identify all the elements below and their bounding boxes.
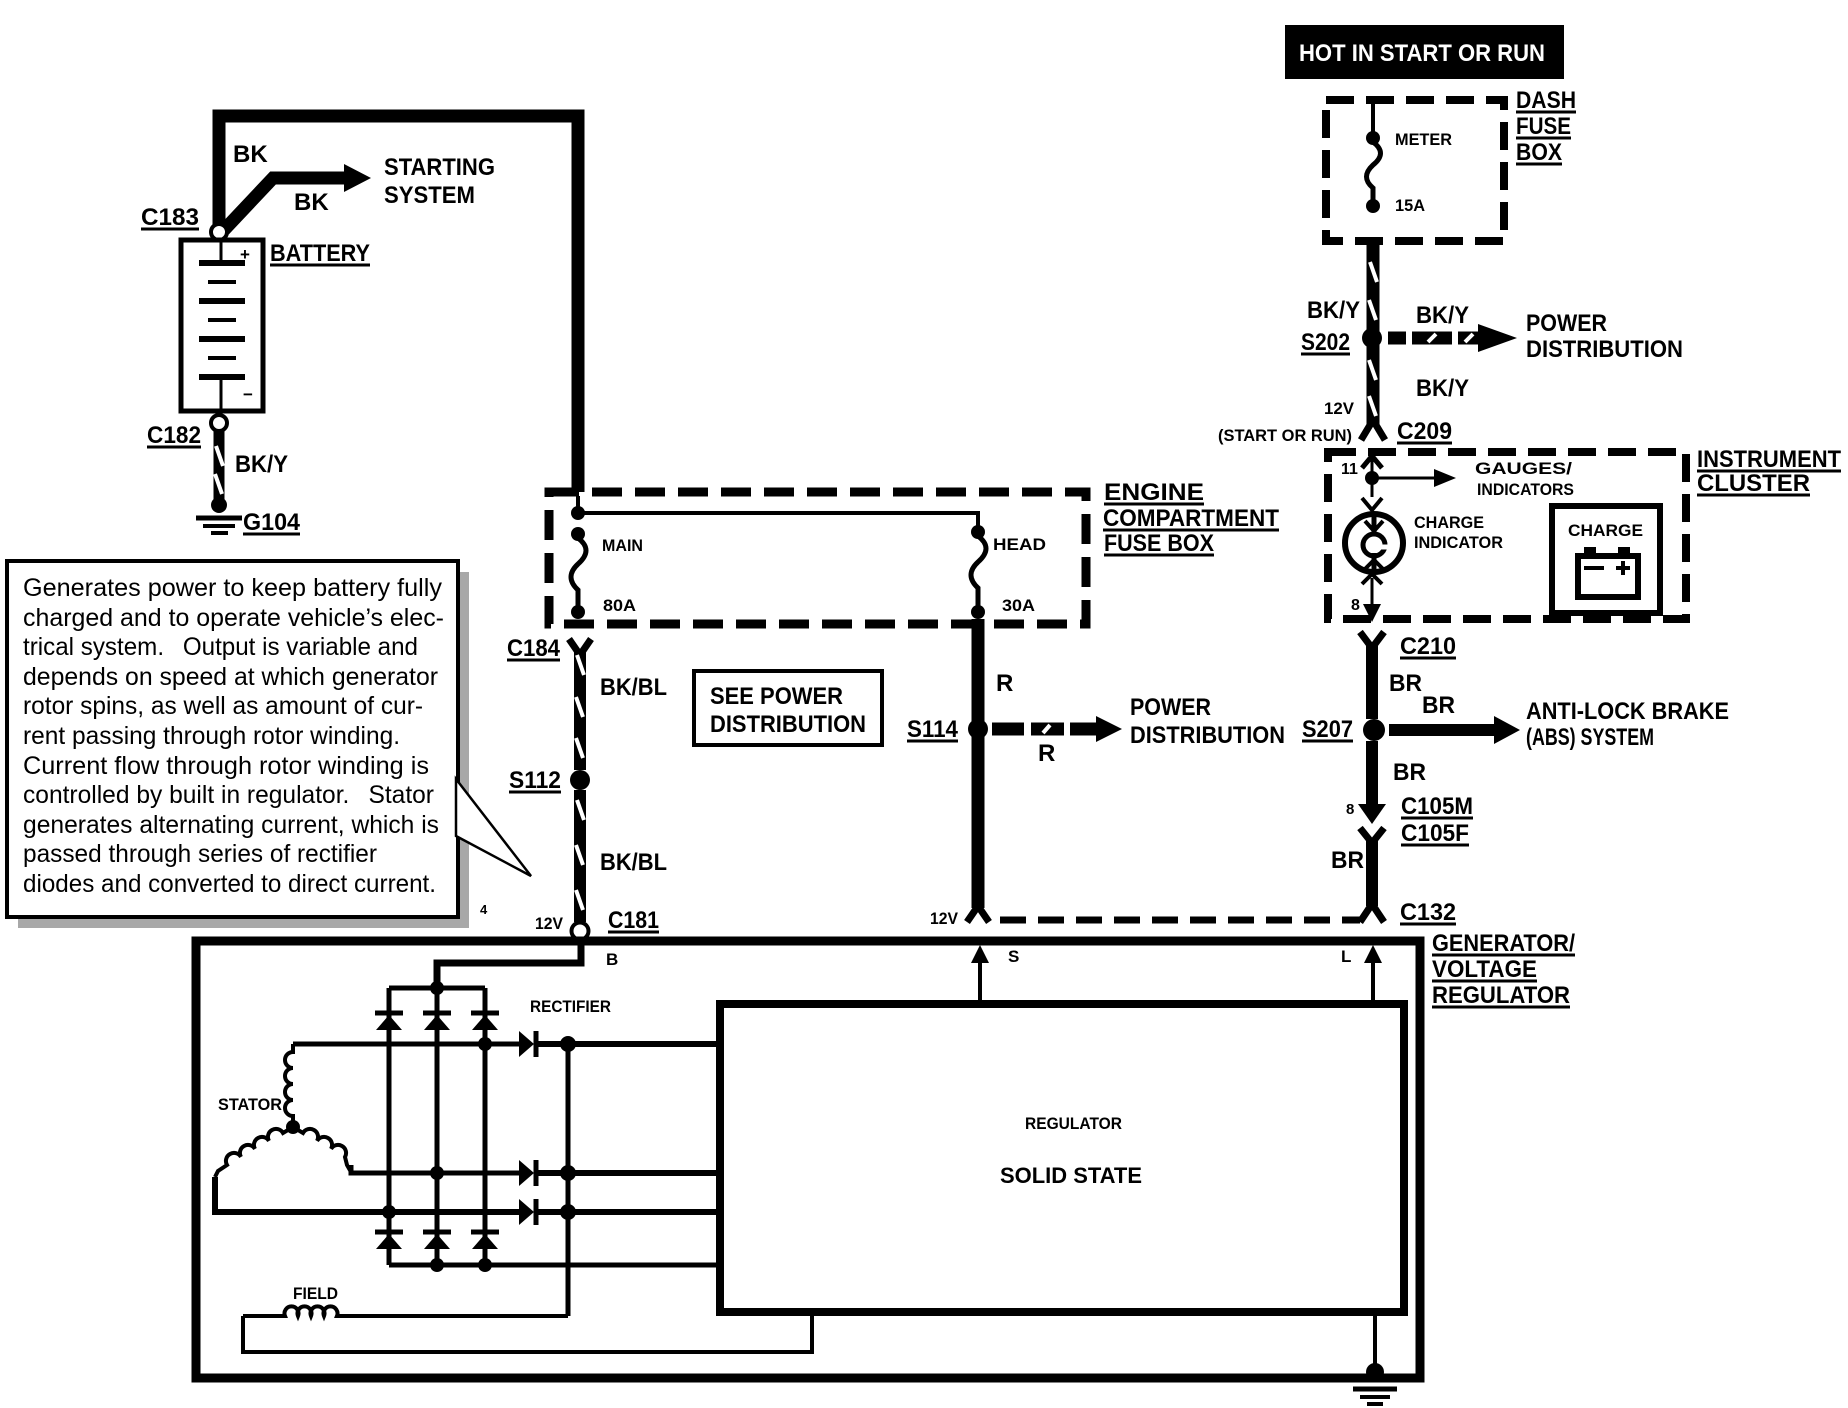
svg-text:C182: C182 (147, 422, 201, 449)
svg-text:G104: G104 (243, 509, 301, 536)
svg-text:4: 4 (480, 902, 488, 917)
svg-text:RECTIFIER: RECTIFIER (530, 997, 611, 1016)
svg-text:COMPARTMENT: COMPARTMENT (1103, 505, 1279, 532)
generator/voltage regulator box (196, 941, 1420, 1378)
wire C184 to S112 (BK/BL) (574, 650, 586, 770)
connector C105F (1360, 828, 1384, 843)
svg-text:SYSTEM: SYSTEM (384, 182, 475, 209)
svg-text:rotor spins, as well as amount: rotor spins, as well as amount of cur- (23, 692, 423, 720)
pin S arrow (978, 952, 982, 1004)
svg-text:diodes and converted to direct: diodes and converted to direct current. (23, 870, 436, 898)
svg-text:GENERATOR/: GENERATOR/ (1432, 930, 1575, 957)
stator phase A line (293, 1042, 520, 1047)
dashed arrow S202 to power distribution (1388, 332, 1480, 345)
svg-text:S114: S114 (907, 716, 959, 743)
svg-text:80A: 80A (603, 596, 636, 615)
svg-text:Generates power to keep batter: Generates power to keep battery fully (23, 574, 442, 602)
connector chevron above charge indicator (1362, 498, 1382, 510)
connector C182 (211, 415, 227, 431)
svg-text:L: L (1341, 947, 1351, 966)
svg-text:C181: C181 (608, 907, 659, 934)
dash fuse box (1326, 100, 1504, 241)
svg-text:8: 8 (1351, 597, 1360, 614)
battery (181, 240, 263, 411)
svg-text:depends on speed at which gene: depends on speed at which generator (23, 663, 438, 691)
svg-text:CHARGE: CHARGE (1568, 521, 1643, 540)
svg-text:rent passing through rotor win: rent passing through rotor winding. (23, 722, 400, 750)
battery icon (1578, 556, 1638, 597)
svg-text:VOLTAGE: VOLTAGE (1432, 956, 1537, 983)
connector C132 (1360, 904, 1384, 922)
header HOT IN START OR RUN (1285, 25, 1564, 79)
svg-text:12V: 12V (535, 914, 564, 933)
svg-text:FUSE BOX: FUSE BOX (1104, 530, 1214, 557)
svg-text:METER: METER (1395, 130, 1452, 149)
wire HEAD fuse to generator S pin (R) (972, 619, 985, 908)
svg-text:S: S (1008, 947, 1019, 966)
rectifier positive diodes (top) (375, 1011, 403, 1016)
note box (7, 561, 458, 917)
svg-text:SEE POWER: SEE POWER (710, 683, 843, 710)
splice S202 (1362, 328, 1382, 348)
svg-text:POWER: POWER (1526, 310, 1607, 337)
connector C183 (211, 224, 227, 240)
field winding (243, 1306, 568, 1316)
wire: battery C183 up and over to engine compartment fuse box (BK) (219, 116, 578, 492)
stator windings (285, 1044, 293, 1127)
svg-text:Current flow through rotor win: Current flow through rotor winding is (23, 752, 429, 780)
svg-text:(ABS) SYSTEM: (ABS) SYSTEM (1526, 724, 1654, 751)
dashed wire from 12V fork to C132 fork (1000, 917, 1360, 924)
svg-text:C184: C184 (507, 635, 561, 662)
charge telltale icon box (1552, 506, 1660, 613)
svg-text:DASH: DASH (1516, 87, 1576, 114)
svg-text:BR: BR (1393, 759, 1426, 786)
svg-text:SOLID STATE: SOLID STATE (1000, 1163, 1142, 1188)
svg-text:CLUSTER: CLUSTER (1697, 470, 1810, 497)
svg-text:STARTING: STARTING (384, 154, 495, 181)
svg-text:C105M: C105M (1401, 793, 1473, 820)
svg-text:passed through series of recti: passed through series of rectifier (23, 840, 377, 868)
svg-text:12V: 12V (930, 909, 959, 928)
trio output junction (536, 1041, 719, 1047)
svg-text:BR: BR (1331, 847, 1364, 874)
fuse METER 15A (1371, 102, 1375, 138)
svg-text:POWER: POWER (1130, 694, 1211, 721)
arrow S207 to ABS (1389, 724, 1496, 736)
ground G104 (211, 497, 227, 513)
svg-text:BK/BL: BK/BL (600, 849, 667, 876)
svg-text:HOT IN START OR RUN: HOT IN START OR RUN (1299, 40, 1545, 67)
connector fork at 12V (S pin feed) (967, 906, 989, 922)
svg-text:C183: C183 (141, 204, 199, 231)
svg-text:controlled by built in regulat: controlled by built in regulator. Stator (23, 781, 434, 809)
svg-text:INSTRUMENT: INSTRUMENT (1697, 446, 1841, 473)
dashed arrow S114 to power distribution (992, 723, 1098, 736)
regulator box (720, 1004, 1404, 1312)
svg-text:B: B (606, 950, 618, 969)
svg-text:INDICATORS: INDICATORS (1477, 480, 1574, 499)
svg-text:11: 11 (1341, 461, 1358, 478)
rectifier bottom rail (389, 1263, 719, 1268)
svg-text:BK/Y: BK/Y (1307, 297, 1360, 324)
splice S112 (570, 770, 590, 790)
svg-text:S202: S202 (1301, 329, 1350, 356)
svg-text:MAIN: MAIN (602, 536, 643, 555)
splice S207 (1363, 719, 1385, 741)
svg-text:C209: C209 (1397, 418, 1452, 445)
svg-text:−: − (243, 385, 253, 404)
svg-text:S112: S112 (509, 767, 561, 794)
svg-text:15A: 15A (1395, 196, 1425, 215)
svg-text:R: R (1038, 740, 1055, 767)
svg-text:BK/Y: BK/Y (1416, 302, 1469, 329)
arrow to gauges/indicators (1372, 477, 1436, 480)
wire dash fuse box to C209 (BK/Y) (1367, 243, 1380, 424)
note box shadow (458, 572, 469, 924)
svg-text:ANTI-LOCK BRAKE: ANTI-LOCK BRAKE (1526, 698, 1729, 725)
svg-text:generates alternating current,: generates alternating current, which is (23, 811, 439, 839)
svg-text:REGULATOR: REGULATOR (1432, 982, 1570, 1009)
svg-text:C132: C132 (1400, 899, 1456, 926)
svg-text:DISTRIBUTION: DISTRIBUTION (710, 711, 866, 738)
wire S112 to C181 (BK/BL) (574, 790, 586, 922)
svg-text:+: + (240, 245, 250, 264)
connector C209 (1361, 420, 1385, 440)
svg-text:8: 8 (1346, 801, 1354, 818)
connector C210 (1360, 632, 1384, 648)
pin L arrow (1371, 952, 1375, 1004)
rectifier columns (387, 988, 392, 1265)
svg-text:REGULATOR: REGULATOR (1025, 1114, 1122, 1133)
svg-text:30A: 30A (1002, 596, 1035, 615)
svg-text:INDICATOR: INDICATOR (1414, 533, 1503, 552)
svg-text:CHARGE: CHARGE (1414, 513, 1484, 532)
fuse HEAD 30A (971, 525, 985, 539)
diode trio (519, 1031, 534, 1057)
svg-text:BATTERY: BATTERY (270, 240, 370, 267)
note callout pointer (456, 779, 531, 876)
wire C210 to S207 (BR) (1366, 644, 1378, 719)
svg-text:BK: BK (233, 141, 268, 168)
svg-text:12V: 12V (1324, 399, 1355, 418)
rectifier negative diodes (bottom) (375, 1230, 403, 1235)
engine compartment fuse box (549, 492, 1086, 624)
connector chevron below charge indicator (1362, 574, 1382, 584)
svg-text:BK: BK (294, 189, 329, 216)
svg-text:BK/Y: BK/Y (1416, 375, 1469, 402)
svg-text:STATOR: STATOR (218, 1095, 282, 1114)
svg-text:BOX: BOX (1516, 139, 1562, 166)
svg-text:BR: BR (1422, 692, 1455, 719)
stator phase B line (351, 1165, 520, 1173)
see power distribution box (694, 671, 882, 745)
fuse MAIN 80A (571, 527, 585, 541)
arrowhead to starting system (344, 164, 371, 192)
svg-text:BK/BL: BK/BL (600, 674, 667, 701)
svg-text:R: R (996, 670, 1013, 697)
svg-text:DISTRIBUTION: DISTRIBUTION (1526, 336, 1683, 363)
svg-text:GAUGES/: GAUGES/ (1475, 459, 1572, 478)
svg-text:ENGINE: ENGINE (1104, 479, 1204, 506)
node: gauges branch (1365, 471, 1379, 485)
svg-text:BR: BR (1389, 670, 1422, 697)
splice S114 (968, 719, 988, 739)
wire: starting system branch (BK) (224, 178, 346, 230)
svg-text:DISTRIBUTION: DISTRIBUTION (1130, 722, 1285, 749)
ground wire from regulator (1373, 1312, 1377, 1374)
svg-text:FIELD: FIELD (293, 1284, 338, 1303)
wire C182 to G104 (BK/Y) (214, 431, 225, 502)
svg-text:S207: S207 (1302, 716, 1353, 743)
svg-text:C105F: C105F (1401, 820, 1469, 847)
svg-text:HEAD: HEAD (993, 535, 1046, 554)
wire C105F to C132 (BR) (1366, 838, 1378, 906)
connector C184 (569, 639, 591, 655)
svg-text:FUSE: FUSE (1516, 113, 1571, 140)
svg-text:BK/Y: BK/Y (235, 451, 288, 478)
svg-text:C210: C210 (1400, 633, 1456, 660)
svg-text:trical system. Output is vari: trical system. Output is variable and (23, 633, 418, 661)
charge indicator lamp (1345, 514, 1403, 572)
wire S207 to C105M (BR) (1366, 741, 1378, 806)
field return wire (243, 1313, 812, 1352)
svg-text:charged and to operate vehicle: charged and to operate vehicle’s elec- (23, 604, 444, 632)
wire: fuse box internal bus (578, 496, 978, 532)
svg-text:(START OR RUN): (START OR RUN) (1218, 426, 1352, 445)
ground symbol (1366, 1363, 1384, 1381)
stator phase C line (215, 1177, 520, 1212)
connector C181 (572, 923, 589, 940)
instrument cluster box (1328, 452, 1686, 619)
rectifier top rail (389, 986, 485, 991)
